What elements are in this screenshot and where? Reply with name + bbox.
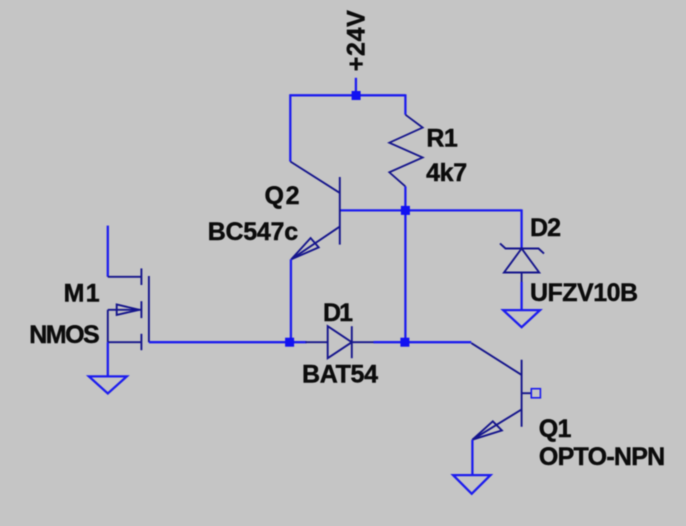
svg-text:Q1: Q1 [539, 415, 572, 443]
wire top rail +24V [290, 94, 405, 96]
mosfet M1 [108, 268, 149, 350]
wire +24V stub [355, 78, 357, 96]
svg-text:R1: R1 [426, 124, 457, 152]
svg-text:D1: D1 [323, 299, 353, 327]
node +24V junction [352, 91, 361, 100]
transistor Q1 [471, 343, 531, 440]
wire M1 source to ground [107, 342, 109, 376]
ground (Q1) [453, 475, 490, 494]
svg-text:M1: M1 [64, 280, 100, 308]
diode D1 [306, 326, 375, 358]
wire R1 bottom [404, 186, 406, 210]
svg-text:BAT54: BAT54 [302, 361, 378, 389]
wire R1 node to D1 cathode node [404, 209, 406, 343]
svg-text:UFZV10B: UFZV10B [530, 279, 638, 307]
node D1 anode junction [285, 338, 294, 347]
zener diode D2 [500, 243, 544, 283]
svg-text:BC547c: BC547c [208, 218, 298, 246]
svg-text:NMOS: NMOS [29, 321, 100, 349]
wire D2 anode to ground [520, 282, 522, 310]
svg-text:+24V: +24V [342, 10, 370, 71]
svg-text:D2: D2 [530, 214, 561, 242]
wire Q2 emitter drop [290, 259, 292, 342]
svg-text:4k7: 4k7 [426, 159, 467, 187]
wire Q2 collector drop [289, 94, 291, 161]
resistor R1 [389, 115, 422, 187]
pin Q1 base open square [531, 389, 540, 398]
transistor Q2 [290, 162, 340, 260]
svg-text:Q2: Q2 [265, 182, 300, 210]
node R1/base junction [401, 206, 410, 215]
node D1 cathode junction [400, 338, 409, 347]
wire mid rail (Q2 base to D2) [340, 209, 522, 211]
wire main rail left (M1 gate to D1) [149, 341, 307, 343]
wire R1 top [404, 94, 406, 114]
svg-text:OPTO-NPN: OPTO-NPN [539, 443, 665, 471]
wire main rail right (D1 to Q1) [374, 341, 472, 343]
ground (M1) [89, 376, 127, 393]
ground (D2) [503, 310, 540, 327]
wire D2 drop [520, 209, 522, 248]
wire M1 drain [107, 226, 109, 277]
wire Q1 emitter to ground [471, 440, 473, 475]
